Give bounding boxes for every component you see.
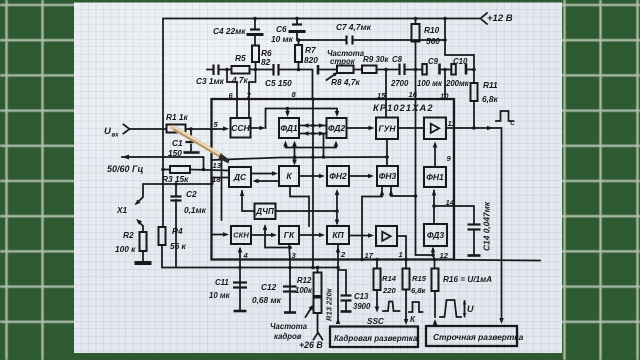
- svg-text:0,1мк: 0,1мк: [184, 205, 207, 215]
- svg-text:R12: R12: [297, 276, 312, 285]
- svg-text:15: 15: [377, 91, 386, 100]
- svg-text:С1: С1: [172, 138, 183, 148]
- svg-text:17: 17: [365, 251, 374, 260]
- svg-text:U: U: [467, 304, 474, 314]
- svg-text:ДС: ДС: [233, 172, 247, 182]
- svg-text:Частота: Частота: [270, 322, 308, 331]
- svg-text:ДЧП: ДЧП: [255, 207, 274, 216]
- svg-text:0,68 мк: 0,68 мк: [252, 295, 282, 305]
- svg-text:14: 14: [446, 198, 455, 207]
- svg-text:R1 1к: R1 1к: [166, 112, 189, 122]
- svg-text:С5 150: С5 150: [265, 78, 292, 88]
- svg-text:3900: 3900: [353, 302, 371, 311]
- svg-text:R16 = U/1мА: R16 = U/1мА: [443, 275, 492, 284]
- svg-text:6,8к: 6,8к: [482, 94, 499, 104]
- svg-text:С14 0,047мк: С14 0,047мк: [482, 201, 492, 251]
- svg-text:строк: строк: [330, 57, 356, 66]
- svg-text:С4 22мк: С4 22мк: [213, 26, 246, 36]
- svg-text:С9: С9: [428, 57, 439, 66]
- svg-text:82: 82: [261, 57, 271, 67]
- svg-text:R11: R11: [483, 80, 498, 90]
- svg-text:16: 16: [409, 90, 418, 99]
- svg-text:+12 В: +12 В: [487, 13, 513, 24]
- svg-text:С13: С13: [354, 292, 369, 301]
- svg-text:ФН1: ФН1: [426, 172, 444, 182]
- svg-text:R4: R4: [172, 226, 183, 236]
- svg-text:12: 12: [440, 251, 449, 260]
- svg-text:6,8к: 6,8к: [411, 286, 427, 295]
- svg-text:С7 4,7мк: С7 4,7мк: [336, 22, 372, 32]
- svg-text:4,7к: 4,7к: [231, 75, 249, 85]
- svg-text:К: К: [286, 171, 292, 181]
- svg-text:С: С: [510, 120, 515, 127]
- svg-text:СКН: СКН: [233, 231, 249, 240]
- svg-text:2700: 2700: [390, 79, 409, 88]
- svg-text:R7: R7: [305, 45, 316, 55]
- svg-text:Кадровая развертка: Кадровая развертка: [334, 334, 418, 343]
- svg-text:С11: С11: [215, 278, 229, 287]
- svg-text:R13 220к: R13 220к: [325, 287, 334, 321]
- svg-text:С10: С10: [453, 57, 468, 66]
- svg-text:56 к: 56 к: [170, 241, 187, 251]
- svg-text:ССН: ССН: [231, 123, 250, 133]
- svg-text:100 мк: 100 мк: [417, 79, 443, 88]
- svg-text:+26 В: +26 В: [299, 340, 323, 350]
- svg-text:R10: R10: [424, 25, 440, 35]
- svg-text:ФД1: ФД1: [280, 123, 298, 133]
- svg-text:R15: R15: [412, 274, 427, 283]
- svg-text:R9 30к: R9 30к: [363, 55, 389, 64]
- svg-text:10 мк: 10 мк: [209, 291, 231, 300]
- svg-text:ФД2: ФД2: [328, 123, 346, 133]
- svg-text:Строчная развертка: Строчная развертка: [433, 332, 524, 342]
- svg-text:2: 2: [340, 250, 346, 259]
- svg-text:50/60 Гц: 50/60 Гц: [107, 164, 144, 174]
- svg-text:R5: R5: [235, 53, 246, 63]
- svg-text:ФД3: ФД3: [427, 230, 445, 240]
- svg-text:ГК: ГК: [284, 230, 295, 240]
- svg-text:100к: 100к: [295, 286, 313, 295]
- svg-text:560: 560: [426, 36, 440, 46]
- svg-text:150: 150: [168, 148, 182, 158]
- svg-text:ФН3: ФН3: [379, 171, 397, 181]
- svg-text:вх: вх: [112, 133, 120, 139]
- svg-text:С3 1мк: С3 1мк: [196, 76, 225, 86]
- svg-text:кадров: кадров: [274, 332, 302, 341]
- svg-text:R8 4,7к: R8 4,7к: [331, 77, 360, 87]
- svg-text:Х1: Х1: [116, 205, 128, 215]
- svg-text:100 к: 100 к: [115, 244, 136, 254]
- svg-text:1: 1: [399, 250, 403, 259]
- svg-text:С8: С8: [392, 55, 403, 64]
- svg-text:ФН2: ФН2: [329, 171, 347, 181]
- svg-text:10: 10: [440, 92, 449, 101]
- svg-text:10 мк: 10 мк: [271, 34, 294, 44]
- svg-text:13: 13: [213, 161, 222, 170]
- svg-text:С6: С6: [276, 24, 287, 34]
- svg-text:R2: R2: [123, 230, 134, 240]
- svg-text:КП: КП: [332, 230, 344, 240]
- svg-text:С12: С12: [261, 282, 277, 292]
- svg-text:11: 11: [448, 119, 456, 128]
- svg-text:820: 820: [304, 55, 318, 65]
- svg-text:С2: С2: [186, 189, 197, 199]
- svg-text:220: 220: [382, 286, 396, 295]
- svg-text:4: 4: [243, 251, 249, 260]
- svg-text:R3 15к: R3 15к: [162, 174, 189, 184]
- svg-text:18: 18: [212, 175, 221, 184]
- svg-text:SSC: SSC: [367, 317, 385, 326]
- svg-text:ГУН: ГУН: [378, 123, 396, 133]
- svg-text:200мк: 200мк: [445, 79, 470, 88]
- svg-text:R14: R14: [382, 274, 397, 283]
- svg-text:КР1021ХА2: КР1021ХА2: [373, 103, 434, 113]
